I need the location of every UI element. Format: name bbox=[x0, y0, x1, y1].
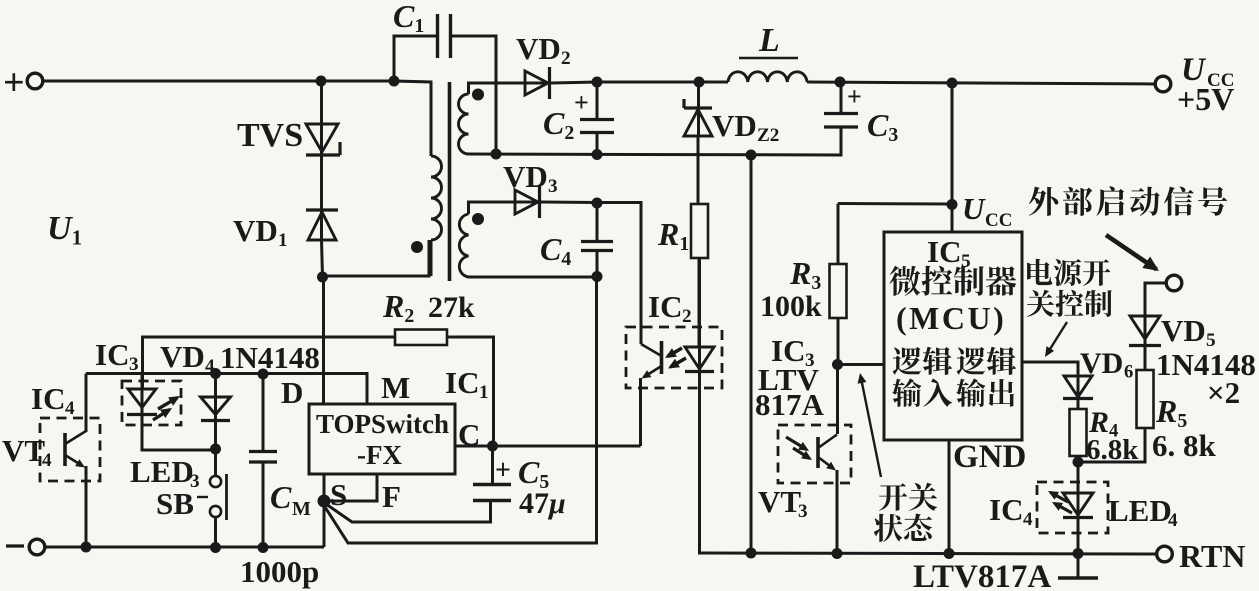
svg-text:1000p: 1000p bbox=[240, 554, 319, 589]
svg-text:(MCU): (MCU) bbox=[896, 300, 1006, 336]
VD5 value 1N4148 x2 bbox=[1156, 347, 1256, 410]
CM label bbox=[270, 479, 311, 520]
svg-text:4: 4 bbox=[205, 356, 215, 377]
phototransistor VT3 box bbox=[778, 425, 851, 483]
capacitor C5 bbox=[473, 446, 511, 501]
node VD4 anode junction bbox=[210, 368, 221, 379]
node minus terminal bbox=[6, 539, 45, 555]
wire S to primary return rail bbox=[323, 501, 326, 547]
node LED4 rail junction bbox=[1073, 548, 1084, 559]
capacitor C4 bbox=[581, 203, 613, 276]
capacitor C1 bbox=[438, 14, 451, 58]
svg-text:VD: VD bbox=[1161, 313, 1206, 348]
svg-text:LED: LED bbox=[1108, 493, 1172, 528]
wire rail to Ucc terminal bbox=[807, 82, 1156, 84]
diode VD3 bbox=[515, 186, 540, 218]
node external start terminal bbox=[1166, 275, 1182, 291]
R5 value 6.8k bbox=[1152, 428, 1217, 463]
wire VT3 emitter to rail bbox=[836, 470, 839, 553]
node primary rail / C1 junction bbox=[389, 76, 400, 87]
svg-text:RTN: RTN bbox=[1179, 538, 1245, 574]
LED3 bbox=[127, 374, 180, 421]
IC5 text (MCU) bbox=[896, 300, 1006, 336]
wire junction to VT3 collector bbox=[836, 365, 839, 435]
svg-text:IC: IC bbox=[648, 289, 682, 324]
phototransistor VT4 bbox=[65, 431, 86, 468]
transformer secondary 2 polarity dot bbox=[472, 213, 484, 225]
Ucc +5V labels bbox=[1177, 52, 1234, 117]
LED4 label bbox=[1108, 493, 1178, 531]
svg-text:+: + bbox=[3, 62, 25, 104]
svg-text:1: 1 bbox=[479, 382, 489, 403]
svg-text:SB: SB bbox=[156, 486, 194, 521]
svg-text:3: 3 bbox=[129, 354, 139, 375]
VD3 label bbox=[503, 159, 558, 197]
node R4 R5 junction bbox=[1073, 457, 1084, 468]
wire VD3 node to IC2 collector bbox=[597, 203, 641, 345]
VD5 label bbox=[1161, 313, 1216, 351]
ground bbox=[1058, 554, 1098, 578]
C pin label bbox=[458, 417, 480, 452]
svg-text:+5V: +5V bbox=[1177, 81, 1234, 117]
node RTN terminal bbox=[1157, 546, 1173, 562]
node return drop rail junction bbox=[746, 548, 757, 559]
node C4 bottom junction bbox=[592, 271, 603, 282]
node C1 / secondary return junction bbox=[491, 149, 502, 160]
svg-text:IC: IC bbox=[445, 365, 479, 400]
wire S junction to C5 bottom bbox=[326, 501, 491, 522]
R4 label bbox=[1088, 406, 1118, 442]
IC3 label right bbox=[771, 333, 815, 371]
diode VD2 bbox=[525, 67, 550, 99]
C3 plus sign bbox=[847, 82, 862, 111]
wire return drop bbox=[750, 155, 753, 553]
wire Ucc rail to IC5 bbox=[951, 83, 954, 232]
svg-text:100k: 100k bbox=[760, 290, 822, 323]
svg-text:C: C bbox=[270, 479, 292, 515]
svg-text:L: L bbox=[758, 22, 780, 59]
svg-text:VD: VD bbox=[160, 339, 205, 374]
node C4 top junction bbox=[592, 198, 603, 209]
svg-text:IC: IC bbox=[95, 337, 129, 372]
power switch control label 电源开关控制 bbox=[1027, 259, 1112, 317]
R1 label bbox=[657, 216, 689, 255]
IC4 label right bbox=[989, 492, 1033, 530]
svg-text:LTV817A: LTV817A bbox=[913, 559, 1051, 591]
VDZ2 label bbox=[712, 108, 779, 146]
wire drain to TOPSwitch D pin bbox=[322, 277, 325, 404]
RTN label bbox=[1179, 538, 1245, 574]
wire primary return rail bbox=[44, 546, 324, 549]
resistor R1 bbox=[691, 204, 708, 258]
external start label 外部启动信号 bbox=[1029, 186, 1227, 215]
svg-text:IC: IC bbox=[927, 234, 961, 269]
external start arrow bbox=[1106, 235, 1159, 271]
TVS bbox=[306, 124, 340, 155]
node drain junction bbox=[317, 272, 328, 283]
svg-text:VD: VD bbox=[233, 213, 278, 248]
node Ucc IC5 junction bbox=[947, 199, 958, 210]
wire R3 top to Ucc node bbox=[838, 202, 952, 206]
svg-text:GND: GND bbox=[953, 439, 1026, 475]
IC3 type LTV bbox=[758, 362, 820, 397]
wire VD5 to R5 bbox=[1144, 346, 1147, 370]
phototransistor VT3 bbox=[786, 435, 837, 471]
TVS label bbox=[237, 117, 303, 154]
VT3 label bbox=[758, 484, 808, 522]
node logic input junction bbox=[832, 359, 843, 370]
zener VDZ2 bbox=[684, 99, 712, 136]
svg-text:1N4148: 1N4148 bbox=[220, 340, 320, 375]
wire IC2 LED cathode to RTN rail bbox=[700, 371, 702, 553]
node SB rail junction bbox=[210, 542, 221, 553]
diode VD4 bbox=[201, 374, 231, 421]
M pin label bbox=[381, 370, 410, 405]
wire terminal to VD5 bbox=[1145, 283, 1167, 315]
node VDZ2 top junction bbox=[694, 77, 705, 88]
node S junction bbox=[318, 495, 331, 508]
svg-text:Z2: Z2 bbox=[757, 125, 779, 146]
svg-text:4: 4 bbox=[1168, 510, 1178, 531]
switch status arrow bbox=[858, 373, 881, 477]
IC4 label left bbox=[31, 381, 75, 419]
IC5 text 逻辑输入 bbox=[892, 347, 952, 407]
transformer secondary 1 winding bbox=[459, 83, 527, 154]
optocoupler LED4 box bbox=[1037, 482, 1108, 533]
wire VT3 emitter rail junction bbox=[832, 548, 843, 559]
IC5 label bbox=[927, 234, 971, 272]
VD2 label bbox=[516, 31, 571, 69]
svg-text:4: 4 bbox=[1023, 509, 1033, 530]
wire C1 left bbox=[394, 36, 436, 81]
wire top rail primary bbox=[42, 80, 394, 83]
svg-text:1N4148: 1N4148 bbox=[1156, 347, 1256, 382]
C2 label bbox=[543, 105, 574, 144]
TOPSwitch-FX IC1 box bbox=[309, 404, 455, 474]
wire TOPSwitch C pin line bbox=[455, 445, 641, 448]
S pin label bbox=[330, 477, 347, 512]
transformer primary winding bbox=[431, 156, 442, 276]
wire S junction to C4 return bbox=[325, 277, 597, 543]
resistor R3 bbox=[830, 264, 847, 318]
svg-text:+: + bbox=[574, 88, 589, 117]
VD6 label bbox=[1080, 347, 1133, 383]
wire rail C2 to L bbox=[597, 81, 728, 84]
svg-text:CC: CC bbox=[985, 210, 1012, 231]
wire TVS to VD1 bbox=[320, 155, 323, 240]
svg-text:VD: VD bbox=[712, 108, 757, 143]
wire VD1 to drain node bbox=[322, 240, 323, 277]
node C2 top junction bbox=[592, 77, 603, 88]
wire IC5 GND bbox=[948, 440, 951, 553]
wire VT4 emitter to rail bbox=[85, 466, 88, 547]
capacitor CM bbox=[249, 374, 277, 547]
wire R1 to IC2 LED bbox=[698, 258, 701, 346]
VD1 bbox=[306, 210, 338, 240]
svg-text:4: 4 bbox=[42, 450, 52, 471]
IC2 label bbox=[648, 289, 692, 327]
svg-text:3: 3 bbox=[798, 501, 808, 522]
R3 value 100k bbox=[760, 290, 822, 323]
capacitor C3 bbox=[824, 82, 858, 155]
node C5 top junction bbox=[487, 441, 498, 452]
wire R2 right bbox=[447, 337, 494, 446]
svg-text:M: M bbox=[381, 370, 410, 405]
node CM rail junction bbox=[258, 542, 269, 553]
C4 label bbox=[540, 231, 571, 270]
C3 label bbox=[867, 107, 898, 146]
wire M pin net bbox=[86, 374, 367, 405]
wire VD2 cathode to rail bbox=[551, 82, 598, 83]
node Ucc rail junction bbox=[947, 78, 958, 89]
IC2 phototransistor bbox=[641, 341, 686, 379]
svg-text:+: + bbox=[495, 455, 511, 486]
svg-text:27k: 27k bbox=[428, 291, 475, 324]
resistor R2 bbox=[395, 330, 447, 346]
IC1 label bbox=[445, 365, 489, 403]
transformer primary polarity dot bbox=[411, 241, 423, 253]
wire S pin bbox=[323, 474, 326, 501]
F pin label bbox=[382, 479, 401, 514]
wire VD6 to R4 bbox=[1077, 399, 1080, 409]
wire primary winding top stem bbox=[394, 81, 431, 156]
power switch control arrow bbox=[1045, 322, 1067, 357]
Ucc node label bbox=[962, 191, 1012, 231]
svg-text:M: M bbox=[292, 498, 311, 520]
node + input terminal bbox=[3, 62, 43, 104]
svg-text:6: 6 bbox=[1124, 362, 1133, 383]
diode VD5 bbox=[1129, 283, 1161, 346]
MCU IC5 box bbox=[884, 232, 1022, 440]
wire VDZ2 to R1 bbox=[697, 136, 700, 204]
R4 value 6.8k bbox=[1086, 434, 1139, 466]
capacitor C2 bbox=[580, 82, 614, 154]
VD4 label bbox=[160, 339, 320, 377]
IC5 text 微控制器 bbox=[889, 266, 1016, 296]
wire to IC5 logic input bbox=[838, 363, 885, 366]
inductor L bbox=[728, 72, 807, 82]
wire IC2 emitter down bbox=[639, 378, 642, 446]
wire secondary return rail bbox=[467, 128, 841, 155]
IC3 type 817A bbox=[755, 387, 825, 422]
R2 label bbox=[382, 288, 475, 327]
svg-text:D: D bbox=[281, 375, 303, 410]
VT4 label bbox=[2, 433, 52, 471]
transformer secondary 2 winding bbox=[459, 202, 517, 277]
L label bbox=[739, 22, 798, 59]
wire TVS top bbox=[320, 81, 323, 155]
LED3 label bbox=[130, 454, 200, 492]
node CM top junction bbox=[258, 369, 269, 380]
wire RTN rail bbox=[701, 553, 1157, 554]
wire secondary 2 return bbox=[467, 276, 597, 279]
wire VD4 cathode bbox=[214, 420, 217, 450]
switch status annotation 开关状态 bbox=[874, 483, 937, 542]
svg-text:2: 2 bbox=[561, 48, 571, 69]
svg-text:F: F bbox=[382, 479, 401, 514]
svg-text:TOPSwitch: TOPSwitch bbox=[316, 409, 449, 439]
svg-text:3: 3 bbox=[548, 176, 558, 197]
svg-text:47μ: 47μ bbox=[519, 487, 566, 520]
svg-text:IC: IC bbox=[989, 492, 1023, 527]
wire R3 bottom bbox=[837, 318, 840, 364]
C1 label bbox=[393, 0, 424, 37]
LTV817A label bbox=[913, 559, 1051, 591]
svg-text:4: 4 bbox=[65, 398, 75, 419]
GND label bbox=[953, 439, 1026, 475]
node U1 label bbox=[47, 210, 82, 249]
wire R2 left bbox=[143, 337, 396, 389]
VD1 label bbox=[233, 213, 288, 251]
wire VD3 cathode bbox=[541, 201, 597, 205]
svg-text:×2: ×2 bbox=[1207, 375, 1240, 410]
diode VD6 bbox=[1063, 362, 1093, 399]
optocoupler IC2 box bbox=[626, 327, 722, 388]
svg-text:VT: VT bbox=[758, 484, 801, 519]
node C2 bottom junction bbox=[592, 149, 603, 160]
svg-text:6.8k: 6.8k bbox=[1086, 434, 1139, 466]
R5 label bbox=[1155, 393, 1187, 432]
svg-text:C: C bbox=[458, 417, 480, 452]
node Ucc output terminal bbox=[1155, 76, 1171, 92]
wire VT4 collector bbox=[85, 374, 88, 433]
LED4 bbox=[1048, 462, 1093, 518]
svg-text:1: 1 bbox=[278, 230, 288, 251]
CM value 1000p bbox=[240, 554, 319, 589]
resistor R4 bbox=[1070, 409, 1087, 456]
pushbutton SB bbox=[210, 449, 227, 547]
svg-text:TVS: TVS bbox=[237, 117, 303, 154]
svg-text:U: U bbox=[962, 191, 986, 226]
R3 label bbox=[789, 255, 821, 294]
wire VDZ2 top bbox=[697, 82, 700, 136]
IC2 LED bbox=[685, 258, 714, 372]
SB label bbox=[156, 486, 208, 521]
wire C1 right bbox=[452, 36, 496, 154]
node VD4 / LED3 junction bbox=[210, 444, 221, 455]
svg-text:+: + bbox=[847, 82, 862, 111]
optocoupler LED3 box bbox=[122, 381, 181, 425]
svg-text:817A: 817A bbox=[755, 387, 825, 422]
node VT4 emitter rail junction bbox=[81, 542, 92, 553]
node L / C3 junction bbox=[835, 77, 846, 88]
wire IC5 output bbox=[1022, 362, 1078, 376]
svg-text:VD: VD bbox=[516, 31, 561, 66]
D pin label bbox=[281, 375, 303, 410]
node return rail junction bbox=[746, 150, 757, 161]
node primary rail / TVS junction bbox=[316, 76, 327, 87]
IC5 text 逻辑输出 bbox=[956, 347, 1016, 407]
phototransistor VT4 box bbox=[40, 418, 100, 481]
transformer core bbox=[448, 82, 452, 281]
transformer secondary 1 polarity dot bbox=[472, 89, 484, 101]
resistor R5 bbox=[1137, 370, 1154, 428]
svg-text:LED: LED bbox=[130, 454, 194, 489]
wire LED3 cathode bbox=[142, 415, 216, 450]
C2 plus sign bbox=[574, 88, 589, 117]
svg-text:IC: IC bbox=[31, 381, 65, 416]
svg-text:-FX: -FX bbox=[357, 440, 402, 470]
wire R3 top bbox=[837, 204, 840, 265]
TOPSwitch text bbox=[316, 409, 449, 470]
C5 labels bbox=[495, 454, 566, 520]
wire LED4 cathode bbox=[1077, 518, 1080, 554]
node IC5 GND rail junction bbox=[944, 548, 955, 559]
svg-text:2: 2 bbox=[682, 306, 692, 327]
wire F pin bbox=[327, 474, 377, 501]
IC3 label left bbox=[95, 337, 139, 375]
svg-text:6. 8k: 6. 8k bbox=[1152, 428, 1217, 463]
wire primary winding bottom bbox=[323, 240, 430, 276]
wire R5 bottom bbox=[1080, 428, 1145, 462]
